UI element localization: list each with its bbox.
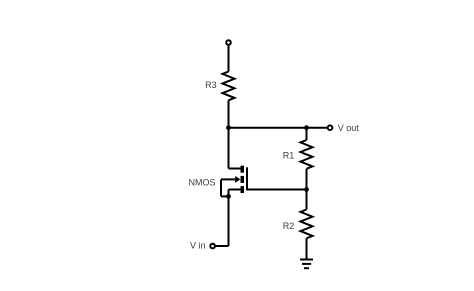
svg-text:R3: R3	[205, 80, 217, 90]
svg-text:R1: R1	[283, 150, 295, 160]
svg-text:NMOS: NMOS	[189, 178, 216, 188]
svg-text:V out: V out	[338, 123, 360, 133]
svg-text:V in: V in	[190, 241, 206, 251]
svg-text:R2: R2	[283, 221, 295, 231]
